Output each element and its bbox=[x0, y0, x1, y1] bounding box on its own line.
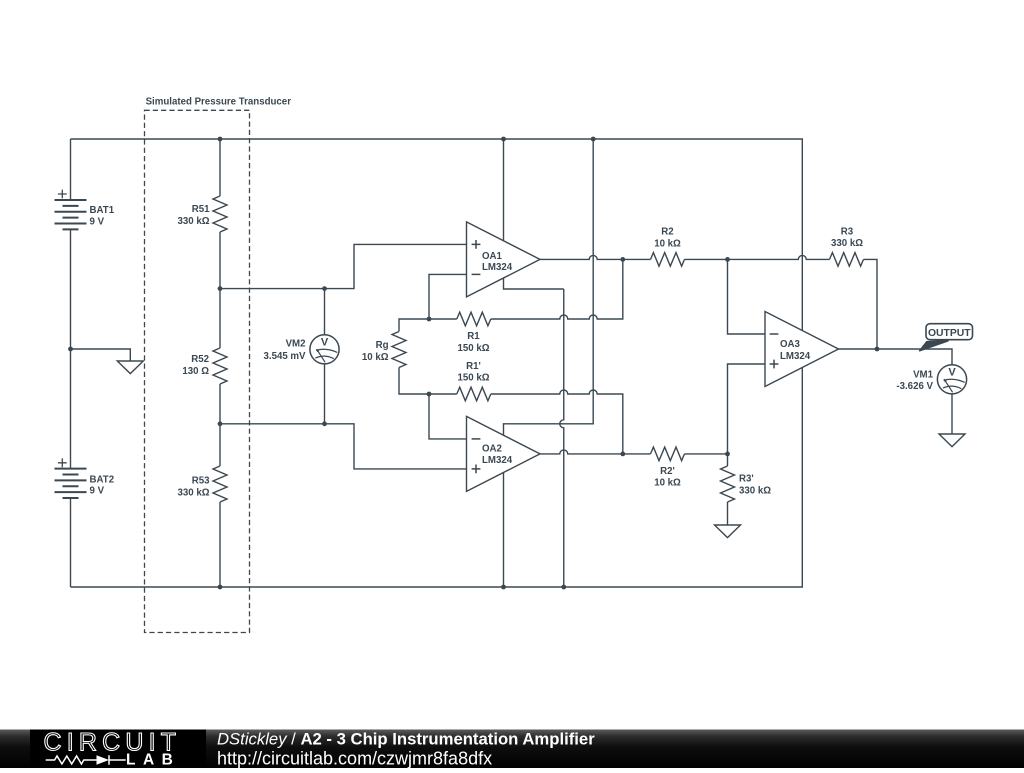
svg-text:130 Ω: 130 Ω bbox=[182, 366, 209, 377]
svg-text:BAT1: BAT1 bbox=[90, 205, 115, 216]
svg-text:R3: R3 bbox=[841, 227, 854, 238]
svg-text:R1': R1' bbox=[466, 361, 481, 372]
svg-text:Simulated Pressure Transducer: Simulated Pressure Transducer bbox=[146, 96, 292, 107]
svg-text:OA2: OA2 bbox=[482, 444, 502, 455]
svg-text:R1: R1 bbox=[467, 331, 480, 342]
svg-text:330 kΩ: 330 kΩ bbox=[739, 486, 771, 497]
svg-text:330 kΩ: 330 kΩ bbox=[177, 487, 209, 498]
svg-text:330 kΩ: 330 kΩ bbox=[177, 216, 209, 227]
svg-text:Rg: Rg bbox=[376, 340, 389, 351]
svg-text:10 kΩ: 10 kΩ bbox=[654, 239, 681, 250]
svg-text:3.545 mV: 3.545 mV bbox=[263, 351, 306, 362]
svg-text:10 kΩ: 10 kΩ bbox=[362, 352, 389, 363]
svg-text:LAB: LAB bbox=[126, 752, 180, 768]
svg-text:OA1: OA1 bbox=[482, 251, 503, 262]
svg-text:V: V bbox=[948, 367, 956, 379]
svg-text:LM324: LM324 bbox=[780, 351, 811, 362]
svg-text:OA3: OA3 bbox=[780, 339, 801, 350]
svg-text:OUTPUT: OUTPUT bbox=[928, 328, 971, 339]
svg-text:http://circuitlab.com/czwjmr8f: http://circuitlab.com/czwjmr8fa8dfx bbox=[217, 749, 492, 769]
svg-text:150 kΩ: 150 kΩ bbox=[457, 343, 489, 354]
svg-text:LM324: LM324 bbox=[482, 262, 513, 273]
svg-text:R53: R53 bbox=[192, 475, 210, 486]
svg-text:R2': R2' bbox=[660, 466, 675, 477]
svg-text:BAT2: BAT2 bbox=[90, 475, 115, 486]
svg-text:VM2: VM2 bbox=[286, 338, 306, 349]
svg-text:DStickley / A2 - 3 Chip Instru: DStickley / A2 - 3 Chip Instrumentation … bbox=[217, 730, 595, 749]
svg-text:VM1: VM1 bbox=[913, 370, 934, 381]
svg-text:330 kΩ: 330 kΩ bbox=[831, 238, 863, 249]
svg-text:R2: R2 bbox=[661, 227, 673, 238]
svg-text:-3.626 V: -3.626 V bbox=[896, 381, 933, 392]
svg-text:LM324: LM324 bbox=[482, 455, 513, 466]
svg-text:R3': R3' bbox=[739, 474, 754, 485]
svg-text:9 V: 9 V bbox=[90, 486, 105, 497]
svg-text:150 kΩ: 150 kΩ bbox=[457, 373, 489, 384]
svg-text:V: V bbox=[321, 337, 329, 349]
svg-text:10 kΩ: 10 kΩ bbox=[654, 478, 681, 489]
svg-text:9 V: 9 V bbox=[90, 216, 105, 227]
svg-text:R51: R51 bbox=[192, 204, 210, 215]
svg-text:R52: R52 bbox=[191, 354, 209, 365]
